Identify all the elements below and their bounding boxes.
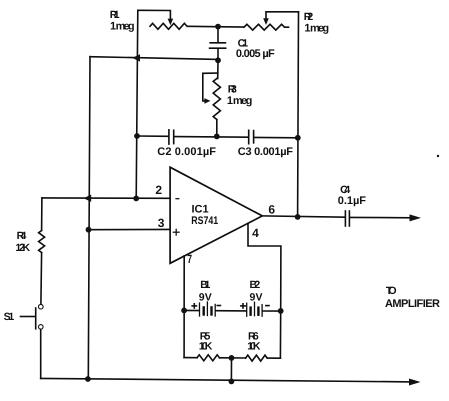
svg-text:1 meg: 1 meg: [227, 95, 252, 107]
svg-text:C2 0.001µF: C2 0.001µF: [157, 146, 216, 158]
svg-text:C3 0.001µF: C3 0.001µF: [238, 146, 293, 158]
svg-text:7: 7: [187, 252, 192, 266]
svg-text:12K: 12K: [15, 242, 30, 254]
svg-text:9 V: 9 V: [199, 292, 212, 304]
svg-text:B1: B1: [200, 279, 210, 291]
svg-text:R1: R1: [110, 9, 120, 21]
svg-text:0.005 µF: 0.005 µF: [236, 48, 275, 60]
svg-text:RS741: RS741: [191, 215, 218, 227]
svg-text:3: 3: [158, 216, 165, 230]
svg-text:R2: R2: [304, 11, 314, 23]
svg-text:4: 4: [252, 226, 259, 240]
svg-text:AMPLIFIER: AMPLIFIER: [385, 298, 440, 310]
svg-text:1 meg: 1 meg: [304, 22, 329, 34]
svg-text:B2: B2: [250, 279, 261, 291]
svg-text:9 V: 9 V: [250, 292, 263, 304]
svg-text:S1: S1: [4, 311, 15, 323]
svg-text:0.1µF: 0.1µF: [338, 195, 366, 207]
svg-text:6: 6: [268, 203, 275, 217]
svg-text:2: 2: [155, 183, 162, 197]
svg-text:10K: 10K: [199, 341, 213, 353]
svg-text:R3: R3: [228, 84, 237, 96]
svg-text:IC1: IC1: [192, 204, 209, 216]
svg-text:R4: R4: [17, 230, 27, 242]
svg-text:10K: 10K: [247, 341, 261, 353]
svg-text:TO: TO: [386, 285, 397, 297]
svg-text:1 meg: 1 meg: [110, 21, 135, 33]
